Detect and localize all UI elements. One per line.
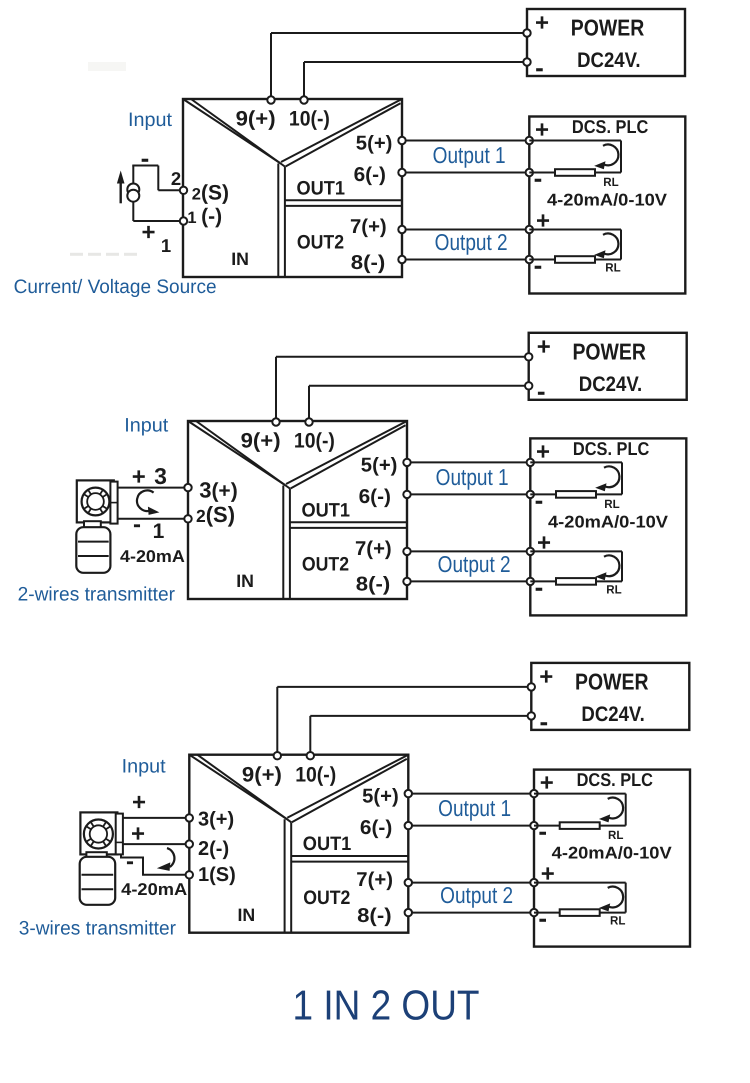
svg-text:7(+): 7(+)	[356, 869, 393, 891]
svg-text:-: -	[141, 143, 150, 173]
svg-text:RL: RL	[606, 582, 621, 596]
svg-text:2(-): 2(-)	[198, 838, 229, 860]
svg-text:3(+): 3(+)	[198, 809, 234, 831]
svg-text:8(-): 8(-)	[351, 252, 386, 274]
svg-text:7(+): 7(+)	[350, 216, 387, 238]
svg-text:Output 2: Output 2	[438, 551, 511, 577]
svg-text:+: +	[537, 530, 551, 557]
svg-text:-: -	[534, 163, 543, 193]
svg-text:1: 1	[153, 520, 165, 543]
svg-text:4-20mA/0-10V: 4-20mA/0-10V	[547, 190, 668, 209]
svg-text:4-20mA: 4-20mA	[121, 880, 187, 899]
svg-text:Current/ Voltage Source: Current/ Voltage Source	[14, 276, 217, 298]
svg-text:-: -	[538, 816, 547, 846]
svg-text:Input: Input	[128, 109, 173, 131]
svg-text:POWER: POWER	[575, 668, 649, 694]
svg-text:Output 2: Output 2	[440, 882, 513, 908]
svg-text:3: 3	[154, 463, 167, 489]
svg-text:DCS. PLC: DCS. PLC	[577, 769, 653, 790]
svg-text:9(+): 9(+)	[236, 108, 276, 131]
svg-text:-: -	[539, 706, 548, 736]
svg-text:6(-): 6(-)	[359, 486, 391, 508]
svg-text:1 (-): 1 (-)	[187, 205, 222, 228]
svg-text:2(S): 2(S)	[196, 502, 235, 527]
svg-text:POWER: POWER	[571, 15, 645, 41]
svg-text:+: +	[132, 464, 146, 491]
svg-text:10(-): 10(-)	[294, 430, 335, 453]
svg-text:RL: RL	[605, 261, 620, 275]
svg-text:Output 1: Output 1	[438, 795, 511, 821]
svg-text:4-20mA/0-10V: 4-20mA/0-10V	[552, 844, 673, 863]
svg-text:+: +	[537, 333, 551, 360]
svg-text:OUT2: OUT2	[303, 887, 350, 909]
svg-text:OUT1: OUT1	[303, 833, 352, 855]
svg-text:7(+): 7(+)	[355, 538, 392, 560]
svg-text:2(S): 2(S)	[192, 182, 229, 205]
svg-text:+: +	[536, 438, 550, 465]
svg-text:5(+): 5(+)	[361, 454, 398, 476]
svg-text:+: +	[132, 789, 146, 816]
svg-text:3(+): 3(+)	[199, 477, 238, 502]
svg-text:Output 1: Output 1	[436, 464, 509, 490]
svg-text:DC24V.: DC24V.	[577, 49, 640, 72]
svg-text:-: -	[535, 52, 544, 82]
svg-text:+: +	[536, 208, 550, 235]
svg-text:-: -	[535, 485, 544, 515]
svg-text:2-wires transmitter: 2-wires transmitter	[18, 584, 176, 606]
svg-text:Output 2: Output 2	[435, 229, 508, 255]
svg-text:-: -	[126, 848, 134, 875]
svg-text:IN: IN	[238, 905, 256, 925]
svg-text:1(S): 1(S)	[198, 864, 236, 886]
svg-text:RL: RL	[608, 828, 623, 842]
svg-text:-: -	[133, 511, 141, 538]
svg-text:4-20mA/0-10V: 4-20mA/0-10V	[548, 512, 669, 531]
svg-text:IN: IN	[231, 249, 249, 269]
svg-text:-: -	[537, 376, 546, 406]
svg-text:-: -	[535, 572, 544, 602]
svg-text:OUT1: OUT1	[297, 177, 346, 199]
svg-text:4-20mA: 4-20mA	[120, 547, 185, 566]
svg-text:DC24V.: DC24V.	[579, 373, 642, 396]
svg-text:+: +	[535, 10, 549, 37]
svg-text:Input: Input	[122, 755, 167, 777]
svg-text:+: +	[131, 820, 145, 847]
svg-text:6(-): 6(-)	[354, 164, 386, 186]
svg-text:5(+): 5(+)	[362, 786, 399, 808]
svg-text:OUT1: OUT1	[302, 499, 351, 521]
svg-text:RL: RL	[604, 497, 619, 511]
svg-text:1: 1	[161, 235, 171, 256]
svg-text:Output 1: Output 1	[433, 142, 506, 168]
svg-text:POWER: POWER	[572, 338, 646, 364]
svg-text:OUT2: OUT2	[302, 553, 349, 575]
svg-text:8(-): 8(-)	[357, 905, 392, 927]
svg-text:RL: RL	[610, 914, 625, 928]
svg-text:DCS. PLC: DCS. PLC	[573, 438, 649, 459]
svg-text:+: +	[540, 770, 554, 797]
svg-text:RL: RL	[603, 175, 618, 189]
svg-text:+: +	[535, 117, 549, 144]
svg-text:DCS. PLC: DCS. PLC	[572, 116, 648, 137]
svg-text:DC24V.: DC24V.	[581, 703, 644, 726]
svg-text:+: +	[141, 219, 155, 246]
svg-text:IN: IN	[236, 571, 254, 591]
svg-text:OUT2: OUT2	[297, 231, 344, 253]
svg-text:2: 2	[171, 168, 181, 189]
svg-text:1 IN 2 OUT: 1 IN 2 OUT	[293, 982, 480, 1029]
svg-text:10(-): 10(-)	[295, 763, 336, 786]
svg-text:10(-): 10(-)	[289, 108, 330, 131]
svg-text:9(+): 9(+)	[241, 430, 281, 453]
svg-text:-: -	[534, 250, 543, 280]
svg-text:+: +	[539, 664, 553, 691]
svg-text:-: -	[538, 903, 547, 933]
svg-text:+: +	[541, 861, 555, 888]
svg-text:6(-): 6(-)	[360, 817, 392, 839]
svg-text:8(-): 8(-)	[356, 574, 391, 596]
svg-text:9(+): 9(+)	[242, 763, 282, 786]
svg-text:Input: Input	[124, 415, 169, 437]
svg-text:5(+): 5(+)	[356, 133, 393, 155]
svg-text:3-wires transmitter: 3-wires transmitter	[19, 918, 177, 940]
